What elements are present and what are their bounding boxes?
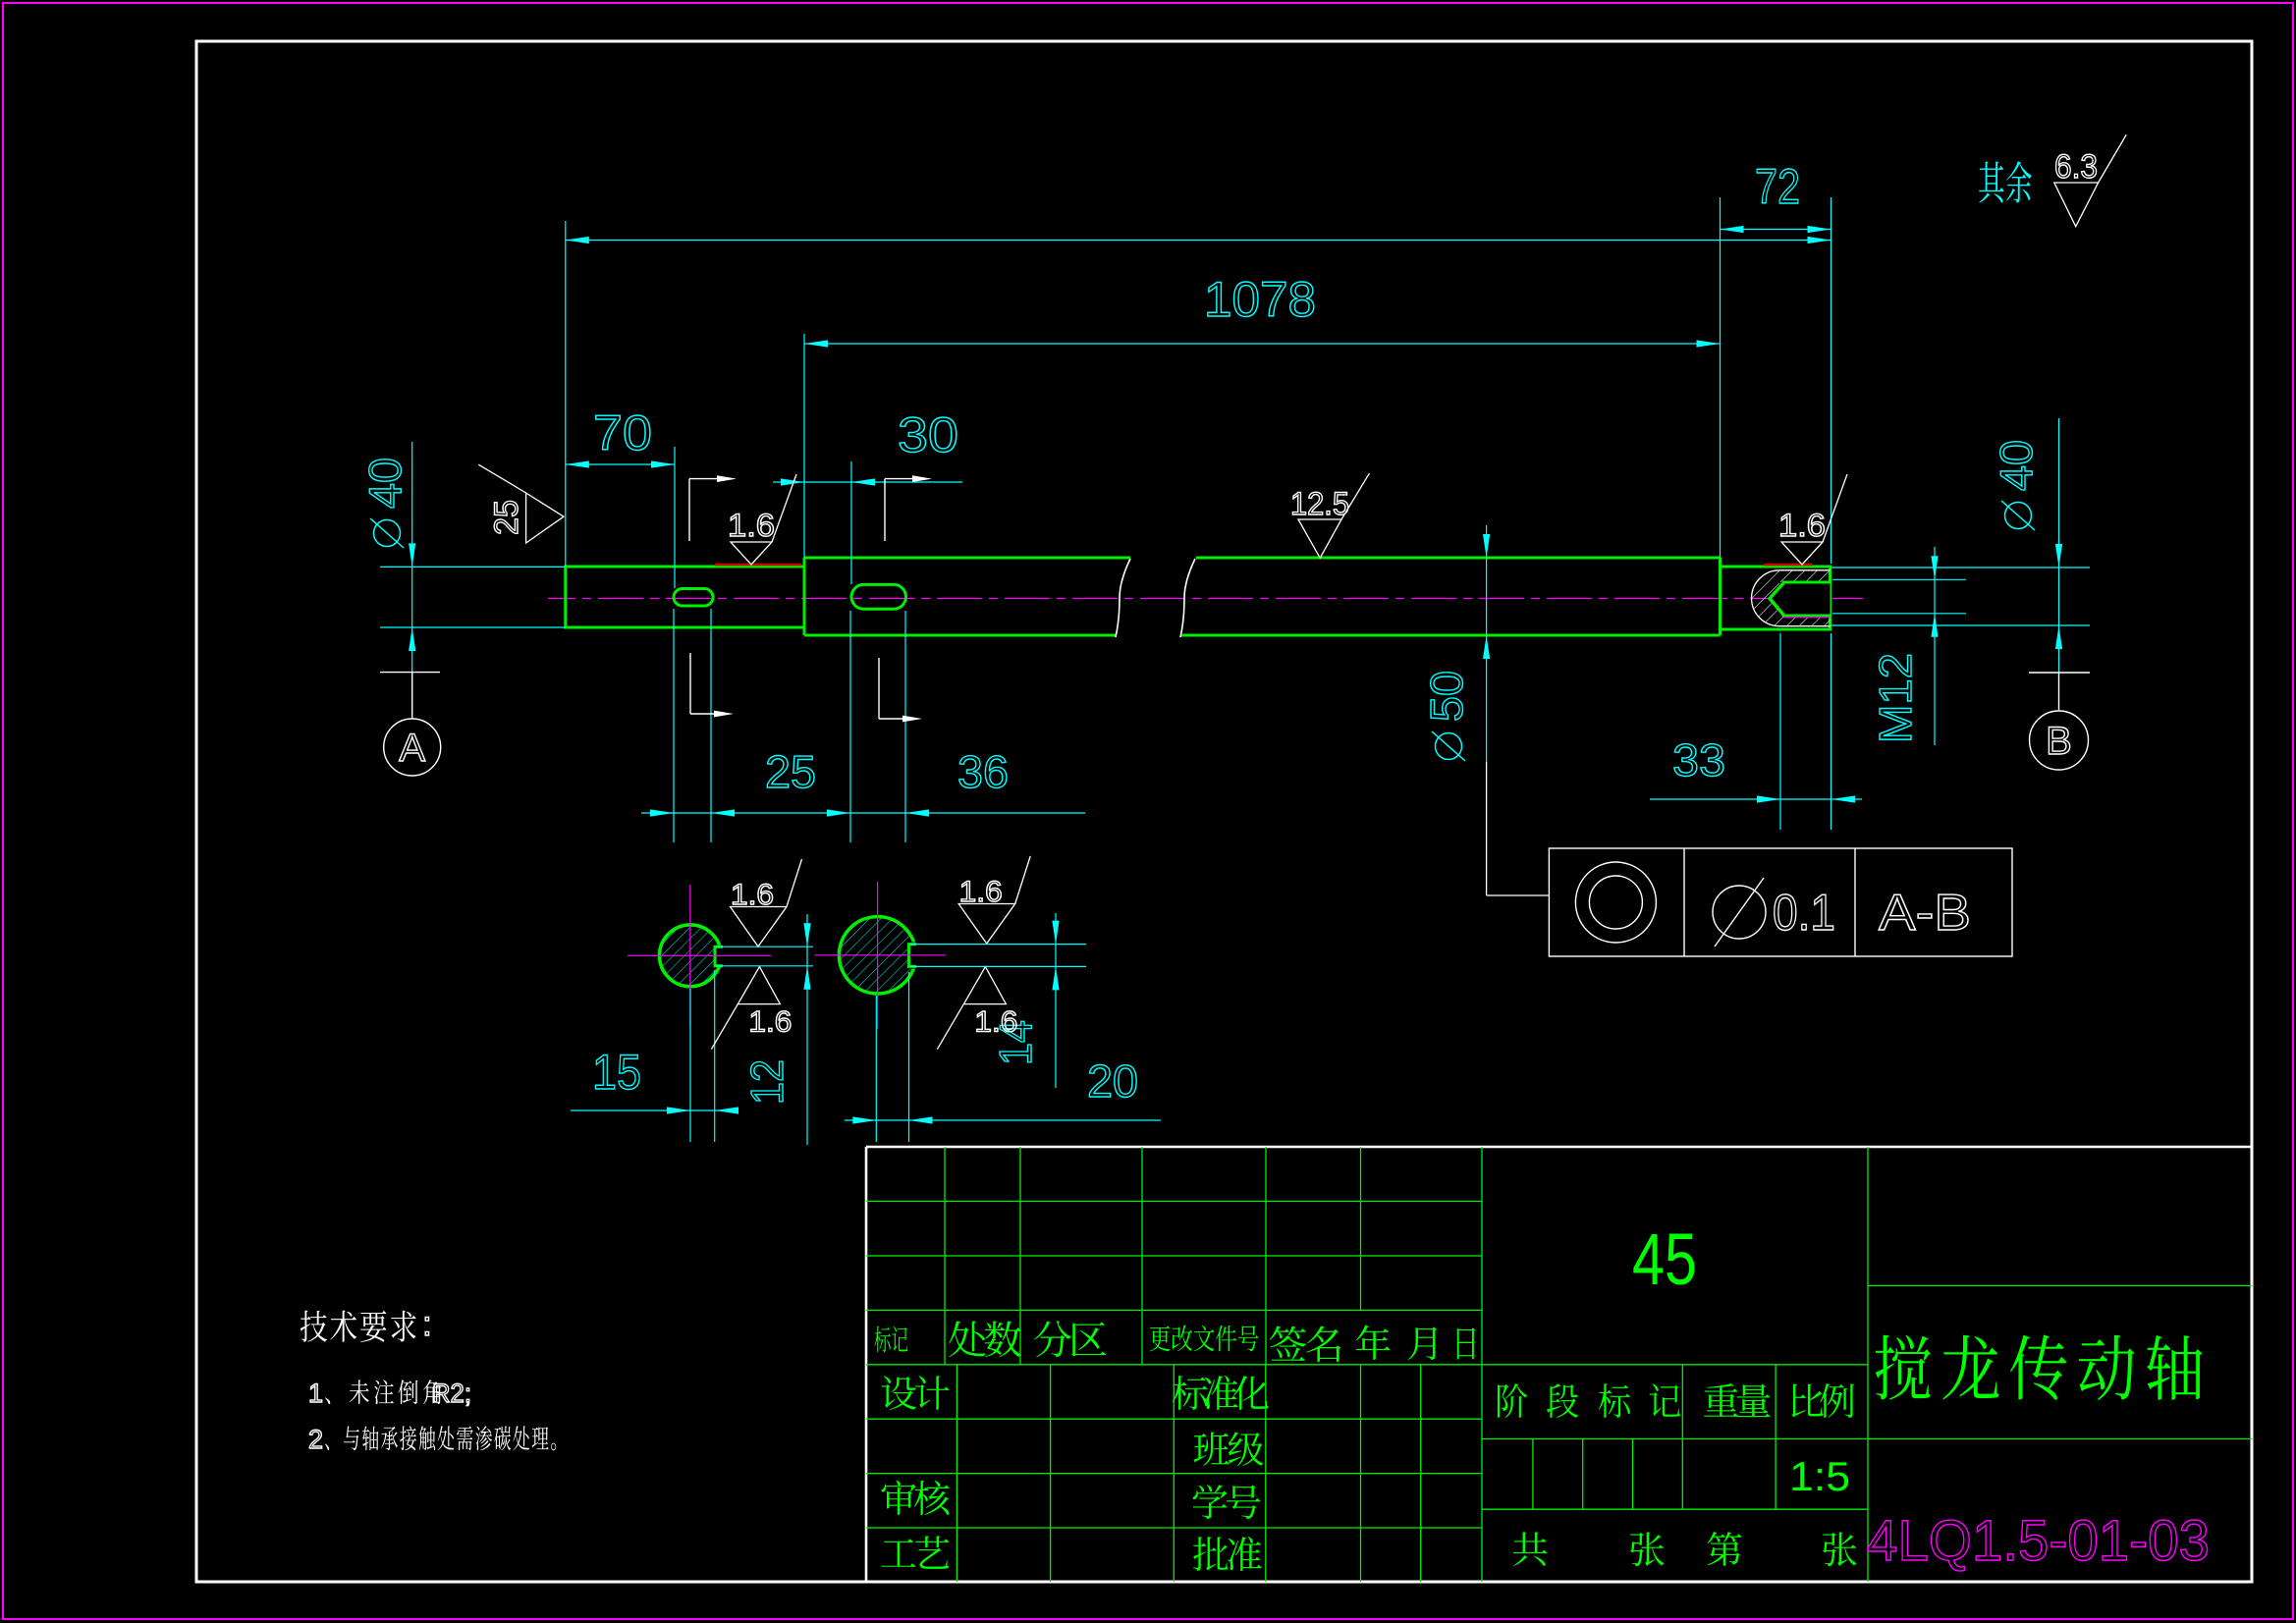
svg-text:50: 50 — [1421, 671, 1472, 722]
label fenqu — [1034, 1321, 1071, 1357]
label xuehao — [1193, 1485, 1228, 1519]
label chushu — [949, 1321, 986, 1357]
svg-text:A-B: A-B — [1879, 885, 1971, 942]
keyway slot 1 on S1 — [674, 589, 713, 607]
roughness 1.6 above section 2 — [958, 904, 1014, 945]
roughness 1.6 below section 2 — [963, 967, 1006, 1004]
datum A — [380, 672, 440, 674]
shaft section S4 (right end, D40) — [1721, 567, 1831, 629]
break line right — [1180, 559, 1195, 637]
svg-text:1.6: 1.6 — [748, 1006, 792, 1039]
tolerance value D0.1 — [1713, 886, 1766, 939]
dim D50 — [1486, 525, 1488, 762]
dim 15 — [571, 1109, 732, 1111]
svg-text:15: 15 — [592, 1045, 641, 1100]
dim M12 — [1832, 578, 1966, 580]
cut mark 1 upper — [688, 479, 690, 541]
svg-text:1078: 1078 — [1204, 272, 1316, 327]
label pizhun — [1193, 1537, 1229, 1571]
extension lines top — [565, 221, 567, 567]
svg-text:20: 20 — [1087, 1055, 1138, 1107]
label banji — [1194, 1433, 1230, 1466]
title block grid — [866, 1201, 1482, 1203]
svg-text:45: 45 — [1632, 1218, 1697, 1300]
cut mark 1 lower — [689, 653, 691, 714]
label jieduanbiaoji — [1498, 1383, 1527, 1418]
svg-text:12.5: 12.5 — [1290, 486, 1349, 521]
dim 30 — [773, 481, 962, 483]
shaft step S1/S2 — [803, 558, 806, 635]
svg-text:M12: M12 — [1870, 653, 1921, 743]
red thread surface mark on S4 — [1764, 564, 1812, 567]
label gongyi — [882, 1539, 916, 1567]
svg-text:0.1: 0.1 — [1773, 885, 1835, 942]
svg-text:1: 1 — [308, 1379, 323, 1408]
svg-text:12: 12 — [741, 1059, 793, 1105]
dim 20 — [845, 1119, 1161, 1121]
svg-text:40: 40 — [1991, 440, 2042, 491]
dim D40 left — [380, 566, 566, 568]
svg-text:36: 36 — [957, 746, 1009, 797]
svg-text:A: A — [399, 727, 425, 770]
red keyseat surface mark on S1 — [715, 564, 801, 567]
concentricity symbol — [1575, 862, 1656, 943]
dim 1078 — [804, 343, 1721, 345]
M12 drill cone — [1770, 583, 1783, 615]
roughness 1.6 above section 1 — [731, 907, 788, 947]
label shenhe — [882, 1481, 916, 1515]
M12 hole outline — [1782, 581, 1831, 584]
title block outer (white left+top) — [865, 1147, 868, 1582]
dim 25 — [641, 812, 1085, 814]
roughness 1.6 on thread end — [1781, 542, 1823, 565]
label genggaiwenjianhao — [1150, 1325, 1171, 1351]
dim 70 — [566, 463, 675, 465]
svg-text:1.6: 1.6 — [974, 1006, 1017, 1039]
svg-text:1.6: 1.6 — [731, 879, 774, 911]
break line left — [1116, 559, 1130, 637]
roughness 6.3 (default, top right) — [2054, 183, 2099, 227]
svg-text:25: 25 — [488, 500, 525, 535]
datum B — [2029, 672, 2090, 674]
label qianming — [1270, 1325, 1307, 1360]
svg-text:30: 30 — [898, 407, 958, 462]
roughness 25 on left face — [526, 493, 564, 543]
keyway slot 2 on S2 — [851, 584, 906, 609]
dim 12 — [716, 946, 813, 947]
keyway extension lines below — [673, 609, 675, 842]
svg-text:1:5: 1:5 — [1789, 1453, 1850, 1499]
shaft section S1 (left, D40) — [566, 567, 804, 627]
dim 72 — [1721, 229, 1831, 231]
svg-text:40: 40 — [359, 458, 410, 509]
svg-text:R2;: R2; — [432, 1379, 471, 1408]
svg-text:33: 33 — [1672, 734, 1725, 785]
concentricity tolerance frame — [1549, 848, 2012, 956]
qiyu label — [1979, 162, 2003, 203]
tolerance frame leader — [1486, 762, 1488, 895]
section 1 centerlines — [628, 954, 771, 956]
label biaozhunhua — [1173, 1376, 1208, 1410]
shaft step S3/S4 — [1719, 558, 1722, 635]
M12 thread line — [1783, 617, 1830, 619]
svg-text:6.3: 6.3 — [2054, 148, 2098, 186]
label zhongliang — [1704, 1383, 1738, 1417]
svg-text:B: B — [2046, 720, 2072, 763]
cut mark 2 upper — [884, 479, 886, 541]
svg-text:72: 72 — [1755, 159, 1800, 214]
label sheji — [882, 1376, 917, 1410]
dim 14 — [910, 944, 1087, 946]
cut mark 2 lower — [878, 658, 880, 719]
svg-text:70: 70 — [593, 406, 652, 460]
centerline of shaft — [548, 598, 1866, 600]
svg-text:2: 2 — [308, 1425, 323, 1454]
part title jiaolongchuandongzhou — [1876, 1335, 1931, 1400]
dim D40 right — [1831, 567, 2091, 568]
section 2 centerlines — [815, 954, 946, 956]
svg-text::: : — [422, 1305, 432, 1343]
M12 hole hatched section — [1752, 570, 1831, 626]
svg-text:25: 25 — [765, 746, 816, 797]
label nianyueri — [1355, 1325, 1390, 1360]
label biaoji — [874, 1326, 890, 1353]
dim 33 — [1650, 798, 1862, 800]
roughness 1.6 on keyway 1 — [731, 542, 772, 565]
shaft section S2 (D50 left of break) — [804, 557, 1130, 560]
svg-text:4LQ1.5-01-03: 4LQ1.5-01-03 — [1867, 1509, 2210, 1573]
dim 36 — [827, 809, 850, 816]
label gong zhang di zhang — [1513, 1532, 1548, 1566]
M12 hole bore (black) — [1779, 582, 1831, 616]
shaft section S3 (D50 right of break) — [1196, 557, 1721, 560]
roughness 1.6 below section 1 — [738, 967, 780, 1004]
svg-text:1.6: 1.6 — [1778, 508, 1826, 543]
overall dim line — [566, 240, 1831, 242]
tech requirements heading — [301, 1311, 327, 1342]
roughness 12.5 on D50 — [1298, 519, 1341, 558]
svg-text:1.6: 1.6 — [959, 876, 1003, 908]
svg-text:1.6: 1.6 — [728, 508, 775, 543]
label bili — [1792, 1384, 1824, 1418]
